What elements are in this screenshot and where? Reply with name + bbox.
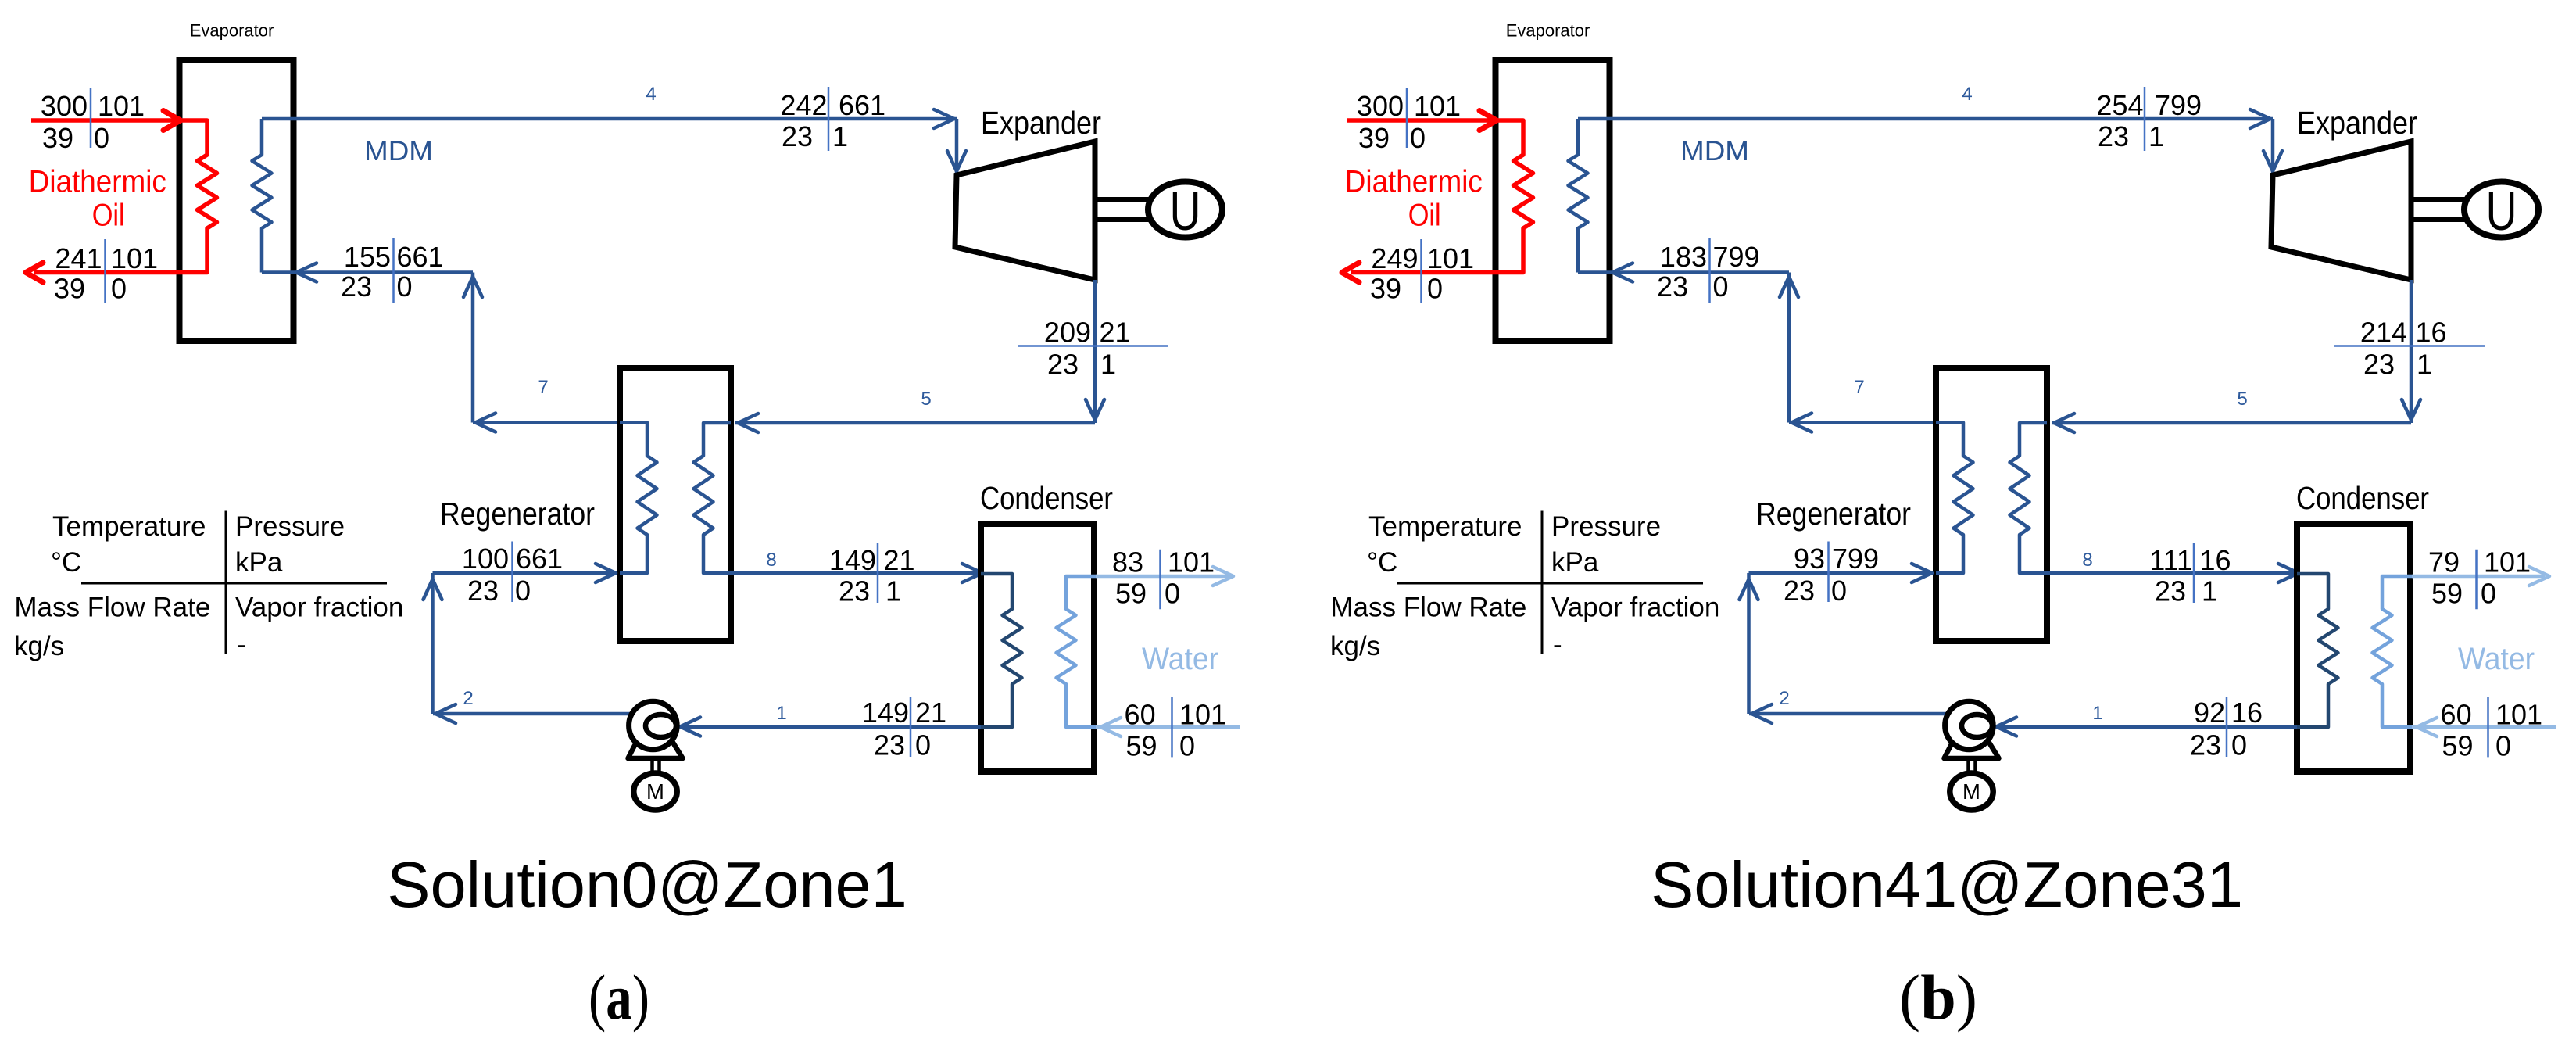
svg-text:Evaporator: Evaporator xyxy=(190,21,274,41)
svg-text:149: 149 xyxy=(862,697,909,729)
svg-text:39: 39 xyxy=(1358,122,1390,154)
svg-text:Water: Water xyxy=(2458,642,2535,676)
svg-text:°C: °C xyxy=(1367,547,1397,578)
svg-text:23: 23 xyxy=(2190,729,2221,761)
svg-text:60: 60 xyxy=(2441,698,2472,730)
svg-text:MDM: MDM xyxy=(364,136,433,167)
svg-text:23: 23 xyxy=(2363,348,2395,380)
svg-text:Diathermic: Diathermic xyxy=(1345,165,1483,199)
svg-text:16: 16 xyxy=(2416,317,2447,349)
svg-text:21: 21 xyxy=(884,544,915,576)
svg-text:4: 4 xyxy=(1962,84,1972,105)
svg-text:(b): (b) xyxy=(1899,962,1977,1033)
svg-text:Water: Water xyxy=(1142,642,1218,676)
svg-text:242: 242 xyxy=(780,89,827,121)
svg-text:7: 7 xyxy=(538,377,548,398)
svg-text:0: 0 xyxy=(111,273,127,305)
svg-text:U: U xyxy=(1170,181,1201,242)
svg-text:°C: °C xyxy=(51,547,81,578)
svg-text:Solution0@Zone1: Solution0@Zone1 xyxy=(387,848,907,921)
svg-text:93: 93 xyxy=(1794,543,1825,575)
svg-text:101: 101 xyxy=(1168,546,1215,578)
svg-text:59: 59 xyxy=(1125,730,1157,762)
svg-text:1: 1 xyxy=(2092,703,2102,724)
svg-text:8: 8 xyxy=(766,550,776,571)
svg-text:kPa: kPa xyxy=(235,547,283,578)
svg-text:0: 0 xyxy=(1713,270,1729,303)
svg-text:155: 155 xyxy=(344,241,391,273)
svg-text:kg/s: kg/s xyxy=(1330,631,1380,661)
svg-text:Temperature: Temperature xyxy=(52,511,206,542)
svg-text:59: 59 xyxy=(2442,730,2473,762)
svg-text:183: 183 xyxy=(1660,241,1707,273)
svg-text:101: 101 xyxy=(1427,242,1474,274)
svg-text:kPa: kPa xyxy=(1551,547,1599,578)
svg-text:241: 241 xyxy=(55,242,102,274)
svg-text:101: 101 xyxy=(111,242,158,274)
svg-text:101: 101 xyxy=(98,90,145,122)
svg-text:0: 0 xyxy=(1410,122,1426,154)
svg-text:Condenser: Condenser xyxy=(980,480,1113,516)
svg-text:Condenser: Condenser xyxy=(2296,480,2429,516)
svg-text:0: 0 xyxy=(1179,730,1195,762)
svg-text:100: 100 xyxy=(462,543,509,575)
svg-text:23: 23 xyxy=(1657,270,1688,303)
svg-text:249: 249 xyxy=(1371,242,1418,274)
svg-text:300: 300 xyxy=(41,90,88,122)
svg-text:661: 661 xyxy=(397,241,444,273)
svg-text:79: 79 xyxy=(2428,546,2460,578)
svg-text:Solution41@Zone31: Solution41@Zone31 xyxy=(1651,848,2243,921)
svg-text:799: 799 xyxy=(1832,543,1879,575)
svg-text:23: 23 xyxy=(2155,575,2186,607)
svg-text:21: 21 xyxy=(1100,317,1131,349)
svg-text:23: 23 xyxy=(467,575,499,607)
svg-text:Regenerator: Regenerator xyxy=(440,496,595,532)
svg-text:Expander: Expander xyxy=(2297,105,2417,141)
svg-text:U: U xyxy=(2486,181,2517,242)
svg-text:59: 59 xyxy=(1115,578,1147,610)
svg-text:300: 300 xyxy=(1357,90,1404,122)
svg-text:23: 23 xyxy=(1784,575,1815,607)
svg-text:39: 39 xyxy=(1370,273,1401,305)
svg-text:1: 1 xyxy=(2417,348,2432,380)
svg-text:101: 101 xyxy=(2484,546,2531,578)
svg-text:0: 0 xyxy=(915,729,931,761)
svg-text:8: 8 xyxy=(2082,550,2092,571)
svg-text:5: 5 xyxy=(921,389,931,410)
svg-text:661: 661 xyxy=(839,89,885,121)
svg-text:4: 4 xyxy=(646,84,656,105)
svg-text:0: 0 xyxy=(397,270,413,303)
svg-text:21: 21 xyxy=(915,697,946,729)
svg-text:Mass Flow Rate: Mass Flow Rate xyxy=(14,593,210,623)
svg-text:Diathermic: Diathermic xyxy=(29,165,166,199)
svg-text:MDM: MDM xyxy=(1680,136,1749,167)
svg-text:0: 0 xyxy=(1427,273,1443,305)
svg-text:0: 0 xyxy=(515,575,531,607)
svg-text:1: 1 xyxy=(1100,348,1116,380)
svg-text:60: 60 xyxy=(1125,698,1156,730)
svg-text:Pressure: Pressure xyxy=(235,511,345,542)
svg-text:799: 799 xyxy=(1713,241,1760,273)
svg-text:16: 16 xyxy=(2200,544,2231,576)
svg-text:kg/s: kg/s xyxy=(14,631,64,661)
svg-text:1: 1 xyxy=(2148,120,2164,152)
svg-text:-: - xyxy=(1553,629,1562,660)
svg-text:2: 2 xyxy=(463,688,473,709)
svg-text:23: 23 xyxy=(782,120,813,152)
svg-text:Vapor fraction: Vapor fraction xyxy=(1551,593,1719,623)
svg-text:Regenerator: Regenerator xyxy=(1756,496,1911,532)
svg-text:101: 101 xyxy=(2495,698,2542,730)
svg-text:0: 0 xyxy=(2495,730,2511,762)
svg-text:-: - xyxy=(237,629,246,660)
svg-text:Vapor fraction: Vapor fraction xyxy=(235,593,403,623)
svg-text:5: 5 xyxy=(2237,389,2247,410)
svg-text:0: 0 xyxy=(94,122,109,154)
svg-text:83: 83 xyxy=(1112,546,1143,578)
svg-text:799: 799 xyxy=(2155,89,2202,121)
svg-text:1: 1 xyxy=(885,575,901,607)
svg-text:16: 16 xyxy=(2231,697,2263,729)
svg-text:254: 254 xyxy=(2096,89,2143,121)
svg-text:23: 23 xyxy=(1047,348,1079,380)
svg-text:(a): (a) xyxy=(589,962,649,1033)
svg-text:Mass Flow Rate: Mass Flow Rate xyxy=(1330,593,1526,623)
svg-text:2: 2 xyxy=(1779,688,1789,709)
svg-text:M: M xyxy=(646,779,664,804)
svg-text:214: 214 xyxy=(2360,317,2407,349)
svg-text:Temperature: Temperature xyxy=(1368,511,1522,542)
svg-text:209: 209 xyxy=(1044,317,1091,349)
svg-text:92: 92 xyxy=(2194,697,2225,729)
svg-text:Pressure: Pressure xyxy=(1551,511,1661,542)
svg-text:0: 0 xyxy=(2481,578,2496,610)
svg-text:39: 39 xyxy=(42,122,73,154)
svg-text:23: 23 xyxy=(341,270,372,303)
svg-text:Oil: Oil xyxy=(1408,198,1441,232)
svg-text:0: 0 xyxy=(1831,575,1847,607)
svg-text:111: 111 xyxy=(2149,544,2192,576)
svg-text:101: 101 xyxy=(1179,698,1226,730)
svg-text:149: 149 xyxy=(829,544,876,576)
svg-text:1: 1 xyxy=(832,120,848,152)
svg-text:101: 101 xyxy=(1414,90,1461,122)
svg-text:59: 59 xyxy=(2431,578,2463,610)
svg-text:39: 39 xyxy=(54,273,85,305)
svg-text:Expander: Expander xyxy=(981,105,1101,141)
svg-text:1: 1 xyxy=(776,703,786,724)
svg-text:23: 23 xyxy=(839,575,870,607)
svg-text:7: 7 xyxy=(1854,377,1864,398)
svg-text:Oil: Oil xyxy=(92,198,125,232)
svg-text:23: 23 xyxy=(874,729,905,761)
svg-text:0: 0 xyxy=(2231,729,2247,761)
svg-text:23: 23 xyxy=(2098,120,2129,152)
svg-text:1: 1 xyxy=(2202,575,2217,607)
svg-text:Evaporator: Evaporator xyxy=(1506,21,1590,41)
svg-text:0: 0 xyxy=(1165,578,1180,610)
svg-text:661: 661 xyxy=(516,543,563,575)
svg-text:M: M xyxy=(1962,779,1980,804)
